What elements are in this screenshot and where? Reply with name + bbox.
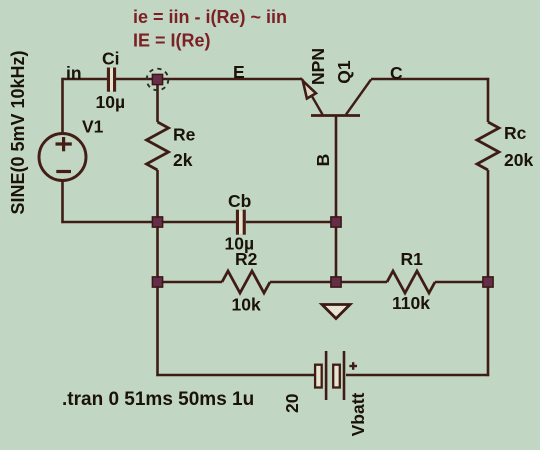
wire node to Re top <box>156 79 159 122</box>
node ground junction <box>331 277 341 287</box>
svg-text:IE = I(Re): IE = I(Re) <box>133 31 211 51</box>
node E-in junction <box>152 74 162 84</box>
svg-text:Cb: Cb <box>228 191 251 211</box>
resistor Re <box>147 122 169 170</box>
battery Vbatt <box>315 351 357 400</box>
svg-text:Re: Re <box>173 125 196 145</box>
node junction squares <box>152 74 493 287</box>
svg-text:ie = iin - i(Re) ~ iin: ie = iin - i(Re) ~ iin <box>133 7 287 27</box>
svg-text:Ci: Ci <box>102 48 120 68</box>
svg-text:SINE(0 5mV 10kHz): SINE(0 5mV 10kHz) <box>8 50 28 214</box>
wire R1 to right node <box>435 281 488 284</box>
ground <box>322 305 350 319</box>
wire in-left to Ci <box>61 78 107 81</box>
wire V1 to Cb rail left <box>61 221 236 224</box>
wire Rc bottom to node <box>487 170 490 282</box>
wire E node to Q1 emitter <box>158 78 303 81</box>
node R1 right junction <box>483 277 493 287</box>
svg-text:10µ: 10µ <box>96 92 126 112</box>
wire V1 top <box>61 78 64 134</box>
wire left vertical down <box>156 222 159 376</box>
svg-text:Q1: Q1 <box>334 60 354 84</box>
resistor Rc <box>477 122 499 170</box>
svg-text:R2: R2 <box>235 249 258 269</box>
wire Cb to base node <box>246 221 336 224</box>
capacitor Ci <box>107 68 116 92</box>
svg-text:20: 20 <box>282 393 302 413</box>
wire right vertical Rc top <box>487 78 490 122</box>
node left rail282 junction <box>152 277 162 287</box>
svg-text:in: in <box>66 63 82 83</box>
wire V1 bottom <box>61 180 64 223</box>
svg-text:C: C <box>390 63 403 83</box>
svg-text:R1: R1 <box>401 249 424 269</box>
node marker dashed circle <box>147 69 169 91</box>
svg-text:110k: 110k <box>392 293 430 313</box>
wire bottom rail left of battery <box>156 374 314 377</box>
svg-text:E: E <box>233 62 245 82</box>
node base-Cb junction <box>331 217 341 227</box>
wire bottom rail right of battery <box>346 374 489 377</box>
resistor R2 <box>222 271 270 293</box>
wire Q1 base down <box>335 116 338 283</box>
svg-text:.tran 0 51ms 50ms 1u: .tran 0 51ms 50ms 1u <box>62 389 254 410</box>
svg-text:Vbatt: Vbatt <box>348 392 368 436</box>
voltage source V1 <box>39 134 86 181</box>
capacitor Cb <box>236 210 246 235</box>
svg-text:B: B <box>313 154 333 167</box>
svg-text:NPN: NPN <box>308 48 328 85</box>
transistor Q1 <box>302 79 371 116</box>
resistor R1 <box>387 271 435 293</box>
wire ground node to R1 <box>336 281 387 284</box>
svg-text:V1: V1 <box>82 116 104 136</box>
svg-text:2k: 2k <box>173 150 193 170</box>
wire Re bottom to rail <box>156 170 159 222</box>
wire Ci to node E-in <box>116 78 158 81</box>
svg-text:20k: 20k <box>504 150 533 170</box>
wire rail282 left to R2 <box>158 281 223 284</box>
node Re bottom junction <box>152 217 162 227</box>
wire right vertical to bottom rail <box>487 282 490 376</box>
wire R2 to ground node <box>270 281 336 284</box>
svg-text:10k: 10k <box>232 295 261 315</box>
svg-text:Rc: Rc <box>504 123 527 143</box>
wire Q1 collector to right corner <box>371 78 489 81</box>
